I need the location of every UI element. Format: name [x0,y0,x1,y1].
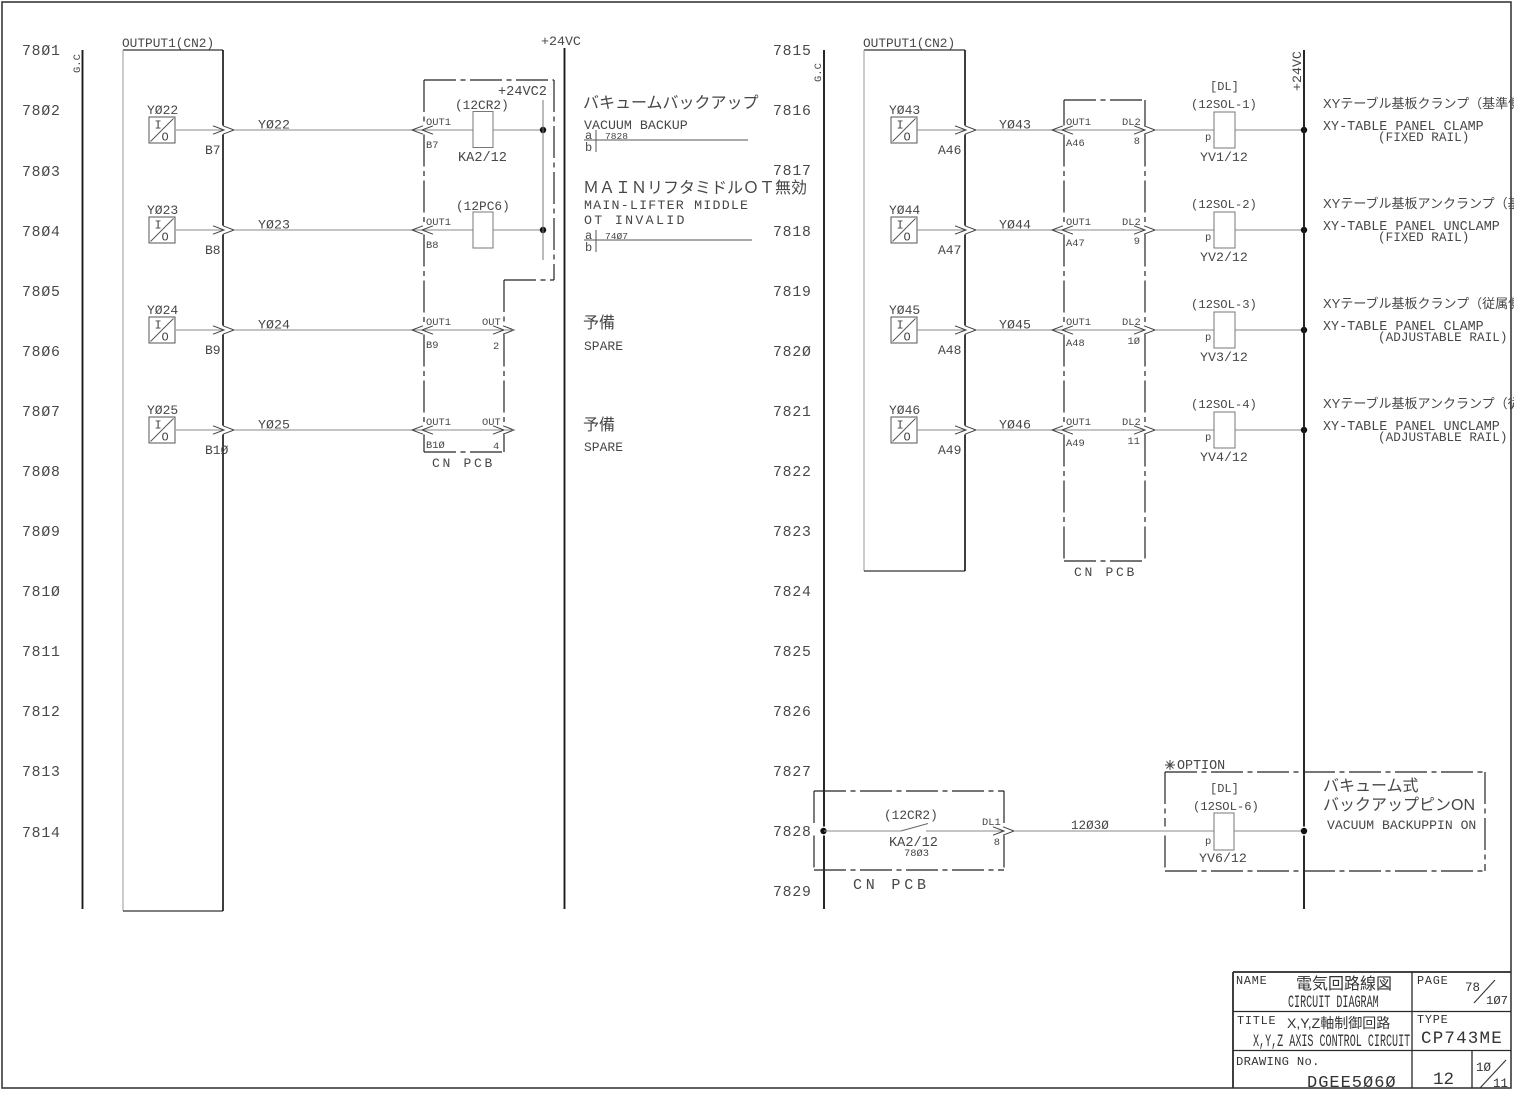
svg-text:p: p [1205,232,1211,244]
svg-text:OUT1: OUT1 [1066,217,1091,229]
wire net YØ25 to CN PCB [234,418,424,433]
svg-text:A47: A47 [1066,238,1085,250]
function annotation row y=230 [1323,196,1514,245]
svg-text:A46: A46 [1066,138,1085,150]
svg-text:CN PCB: CN PCB [853,877,930,894]
svg-text:YØ43: YØ43 [999,118,1031,133]
pin arrow A48 out of OUTPUT1(CN2) right [955,326,976,334]
svg-text:OUT: OUT [482,417,501,429]
wire YØ43 from module to connector edge [917,129,965,131]
svg-text:(ADJUSTABLE RAIL): (ADJUSTABLE RAIL) [1378,330,1507,345]
svg-text:+24VC2: +24VC2 [498,85,547,100]
junction node +24VC2 / KA2 coil [540,127,546,133]
svg-text:CN PCB: CN PCB [432,456,495,471]
svg-text:YV1/12: YV1/12 [1200,150,1248,165]
pin arrow OUT1/B8 into CN PCB [412,217,451,252]
svg-text:b: b [585,141,592,155]
I/O output module YØ22 [147,103,221,158]
I/O output module YØ23 [147,203,221,258]
svg-text:O: O [162,131,169,145]
junction node YV6 to +24VC rail [1301,828,1307,834]
svg-text:YV3/12: YV3/12 [1200,350,1248,365]
svg-text:O: O [904,331,911,345]
svg-text:X,Y,Z AXIS CONTROL CIRCUIT: X,Y,Z AXIS CONTROL CIRCUIT [1253,1032,1410,1052]
wire net 12030 [1014,819,1214,833]
svg-text:(12SOL-6): (12SOL-6) [1193,800,1259,814]
I/O output module YØ24 [147,303,221,358]
function annotation row y=130 [1323,96,1514,145]
svg-text:SPARE: SPARE [584,339,623,354]
svg-text:MAIN-LIFTER MIDDLE: MAIN-LIFTER MIDDLE [584,198,749,213]
svg-text:1Ø7: 1Ø7 [1486,994,1508,1008]
svg-text:7826: 7826 [773,705,812,721]
svg-text:YV2/12: YV2/12 [1200,250,1248,265]
svg-text:YØ24: YØ24 [258,318,290,333]
svg-text:b: b [585,241,592,255]
svg-text:YØ25: YØ25 [258,418,290,433]
svg-text:YØ24: YØ24 [147,303,178,318]
svg-text:12: 12 [1433,1070,1454,1090]
wire YØ44 from module to connector edge [917,229,965,231]
wire YØ22 from module to connector edge [176,129,223,131]
svg-text:p: p [1205,332,1211,344]
svg-text:DL1: DL1 [982,817,1001,829]
svg-text:7811: 7811 [22,645,61,661]
pin arrow OUT1/A49 into CN PCB right [1052,417,1091,450]
svg-text:(ADJUSTABLE RAIL): (ADJUSTABLE RAIL) [1378,430,1507,445]
wire through CN PCB right row YØ43 [1064,129,1145,131]
pin arrow A47 out of OUTPUT1(CN2) right [955,226,976,234]
svg-text:B9: B9 [205,343,221,358]
wire net YØ46 to CN PCB right [976,418,1064,433]
pin arrow OUT1/B1Ø into CN PCB [412,417,451,452]
svg-text:7828: 7828 [773,825,812,841]
svg-text:XYテーブル基板アンクランプ（基準側）: XYテーブル基板アンクランプ（基準側） [1323,196,1514,211]
CN PCB board outline left (dash-dot) [424,80,554,471]
svg-text:XYテーブル基板アンクランプ（従属側）: XYテーブル基板アンクランプ（従属側） [1323,396,1514,411]
right G.C bus rail [823,50,825,827]
svg-text:78: 78 [1465,981,1480,995]
wire net YØ45 to CN PCB right [976,318,1064,333]
svg-text:DRAWING No.: DRAWING No. [1236,1055,1320,1069]
annotation SPARE row 7807 [583,416,623,455]
svg-text:+24VC: +24VC [1290,51,1305,91]
+24VC2 supply stub [498,85,547,260]
CN PCB board outline bottom-left (dash-dot) [814,791,1004,894]
pin arrow DL2/9 out of CN PCB right [1122,217,1155,248]
wire YØ46 from module to connector edge [917,429,965,431]
svg-text:7824: 7824 [773,585,812,601]
junction node YV4/12 to +24VC rail [1301,427,1307,433]
svg-text:OUT1: OUT1 [426,217,451,229]
svg-text:7814: 7814 [22,826,61,842]
svg-text:78Ø6: 78Ø6 [22,345,61,361]
svg-text:A48: A48 [938,343,961,358]
+24VC bus rail right half [1303,50,1305,827]
svg-text:DL2: DL2 [1122,217,1141,229]
svg-text:TYPE: TYPE [1417,1013,1449,1027]
wire YØ24 from module to connector edge [176,329,223,331]
I/O output module YØ43 [889,103,961,158]
wire through CN PCB right row YØ45 [1064,329,1145,331]
svg-text:A49: A49 [1066,438,1085,450]
svg-text:XYテーブル基板クランプ（基準側）: XYテーブル基板クランプ（基準側） [1323,96,1514,111]
wire net YØ24 to CN PCB [234,318,424,333]
title block PAGE cell 78/107 [1417,974,1508,1008]
svg-text:OUT1: OUT1 [426,417,451,429]
svg-text:11: 11 [1493,1077,1508,1091]
wire net YØ23 to CN PCB [234,218,424,233]
svg-text:7821: 7821 [773,405,812,421]
pin arrow B9 out of OUTPUT1(CN2) [213,326,234,334]
pin arrow OUT1/A47 into CN PCB right [1052,217,1091,250]
svg-text:YØ44: YØ44 [999,218,1031,233]
solenoid valve (12SOL-1) YV1/12 [1155,80,1304,165]
svg-text:ＭＡＩＮリフタミドルＯＴ無効: ＭＡＩＮリフタミドルＯＴ無効 [583,179,807,197]
svg-text:YV4/12: YV4/12 [1200,450,1248,465]
wire through CN PCB right row YØ46 [1064,429,1145,431]
svg-text:YØ45: YØ45 [999,318,1031,333]
annotation SPARE row 7805 [583,314,623,354]
svg-text:+24VC: +24VC [541,34,581,49]
svg-text:782Ø: 782Ø [773,345,812,361]
svg-text:DL2: DL2 [1122,117,1141,129]
pin arrow OUT1/B9 into CN PCB [412,317,451,352]
svg-text:7812: 7812 [22,705,61,721]
svg-text:YØ23: YØ23 [258,218,290,233]
wire net YØ44 to CN PCB right [976,218,1064,233]
svg-text:7829: 7829 [773,885,812,901]
pin arrow OUT/2 out of CN PCB [482,317,514,353]
svg-text:CN PCB: CN PCB [1074,565,1137,580]
pin arrow DL2/1Ø out of CN PCB right [1122,317,1155,348]
svg-text:1Ø: 1Ø [1476,1061,1492,1075]
svg-text:OUTPUT1(CN2): OUTPUT1(CN2) [122,36,214,51]
left G.C bus rail [82,50,84,909]
svg-text:7817: 7817 [773,164,812,180]
function annotation row y=430 [1323,396,1514,445]
junction node YV1/12 to +24VC rail [1301,127,1307,133]
svg-text:VACUUM BACKUP: VACUUM BACKUP [584,118,688,133]
title block TITLE cell [1237,1014,1410,1052]
svg-text:7822: 7822 [773,465,812,481]
pin arrow B1Ø out of OUTPUT1(CN2) [213,426,234,434]
svg-text:[DL]: [DL] [1210,782,1239,796]
function annotation row y=330 [1323,296,1514,345]
svg-text:CIRCUIT DIAGRAM: CIRCUIT DIAGRAM [1288,993,1379,1013]
svg-text:バキューム式: バキューム式 [1323,777,1419,795]
svg-text:PAGE: PAGE [1417,974,1449,988]
svg-text:78Ø9: 78Ø9 [22,525,61,541]
svg-text:2: 2 [493,341,499,353]
svg-text:予備: 予備 [583,314,615,332]
wire spare through CN PCB row y=430 [424,429,504,431]
svg-text:78Ø3: 78Ø3 [904,848,929,860]
I/O output module YØ45 [889,303,961,358]
svg-text:OT INVALID: OT INVALID [584,213,687,228]
wire spare through CN PCB row y=330 [424,329,504,331]
svg-text:(12SOL-4): (12SOL-4) [1191,398,1257,412]
junction node YV2/12 to +24VC rail [1301,227,1307,233]
I/O output module YØ46 [889,403,961,458]
svg-text:9: 9 [1134,236,1140,248]
svg-text:7818: 7818 [773,225,812,241]
svg-text:O: O [162,231,169,245]
pin arrow A46 out of OUTPUT1(CN2) right [955,126,976,134]
svg-text:YØ46: YØ46 [889,403,920,418]
title block TYPE cell CP743ME [1417,1013,1503,1049]
svg-text:78Ø4: 78Ø4 [22,225,61,241]
pin arrow B8 out of OUTPUT1(CN2) [213,226,234,234]
svg-text:12Ø3Ø: 12Ø3Ø [1071,819,1109,833]
svg-text:8: 8 [994,837,1000,849]
svg-text:O: O [904,431,911,445]
+24VC bus rail left half [564,48,566,909]
pin arrow DL2/11 out of CN PCB right [1122,417,1155,448]
svg-text:p: p [1205,432,1211,444]
svg-text:X,Y,Z軸制御回路: X,Y,Z軸制御回路 [1287,1015,1390,1031]
relay contact (12CR2) KA2/12 on net 7828 [824,808,1004,860]
annotation VACUUM BACKUP for net 7802 [583,94,759,133]
svg-text:7813: 7813 [22,765,61,781]
svg-text:(12SOL-3): (12SOL-3) [1191,298,1257,312]
left line-number column 7801-7814 [22,44,61,842]
annotation VACUUM BACKUPPIN ON [1323,777,1476,833]
wire through CN PCB right row YØ44 [1064,229,1145,231]
svg-text:4: 4 [493,441,499,453]
svg-text:B7: B7 [426,140,438,152]
svg-text:O: O [162,331,169,345]
solenoid valve (12SOL-6) YV6/12 [1193,782,1304,866]
junction node YV3/12 to +24VC rail [1301,327,1307,333]
contact cross-reference a/b 7407 [584,229,752,255]
svg-text:YØ45: YØ45 [889,303,920,318]
svg-text:78Ø2: 78Ø2 [22,104,61,120]
pin arrow OUT1/A48 into CN PCB right [1052,317,1091,350]
svg-text:(12CR2): (12CR2) [884,808,938,823]
wire net YØ43 to CN PCB right [976,118,1064,133]
svg-text:78Ø1: 78Ø1 [22,44,61,60]
title block DRAWING No cell DGEE5060 [1236,1055,1397,1093]
svg-text:1Ø: 1Ø [1128,336,1140,348]
solenoid valve (12SOL-3) YV3/12 [1155,298,1304,365]
svg-text:SPARE: SPARE [584,440,623,455]
connector block OUTPUT1(CN2) left [122,36,223,911]
svg-text:DL2: DL2 [1122,317,1141,329]
svg-text:O: O [904,131,911,145]
svg-text:YØ22: YØ22 [147,103,178,118]
svg-text:YV6/12: YV6/12 [1199,851,1247,866]
wire YØ45 from module to connector edge [917,329,965,331]
svg-text:OUT1: OUT1 [1066,317,1091,329]
svg-text:YØ44: YØ44 [889,203,920,218]
annotation MAIN-LIFTER MIDDLE OT INVALID for net 7804 [583,179,807,228]
svg-text:YØ25: YØ25 [147,403,178,418]
svg-text:B8: B8 [426,240,438,252]
svg-text:p: p [1205,132,1211,144]
junction node +24VC2 / PC6 coil [540,227,546,233]
CN PCB board outline right (dash-dot) [1064,100,1145,580]
svg-text:7825: 7825 [773,645,812,661]
pin arrow OUT1/A46 into CN PCB right [1052,117,1091,150]
pin arrow OUT1/B7 into CN PCB [412,117,451,152]
svg-text:NAME: NAME [1236,974,1268,988]
svg-text:7816: 7816 [773,104,812,120]
svg-text:A48: A48 [1066,338,1085,350]
svg-text:YØ46: YØ46 [999,418,1031,433]
wire YØ23 from module to connector edge [176,229,223,231]
svg-text:7823: 7823 [773,525,812,541]
pin arrow OUT/4 out of CN PCB [482,417,514,453]
svg-text:B1Ø: B1Ø [426,440,445,452]
svg-text:A49: A49 [938,443,961,458]
svg-text:O: O [904,231,911,245]
svg-text:YØ23: YØ23 [147,203,178,218]
svg-text:A46: A46 [938,143,961,158]
svg-text:OUTPUT1(CN2): OUTPUT1(CN2) [863,36,955,51]
wire net YØ22 to CN PCB [234,118,424,133]
svg-text:78Ø8: 78Ø8 [22,465,61,481]
svg-text:8: 8 [1134,136,1140,148]
svg-text:YØ22: YØ22 [258,118,290,133]
contact cross-reference a/b 7828 for relay KA2 [584,129,748,155]
svg-text:予備: 予備 [583,416,615,434]
svg-text:YØ43: YØ43 [889,103,920,118]
svg-text:7827: 7827 [773,765,812,781]
svg-text:78Ø7: 78Ø7 [22,405,61,421]
svg-text:B7: B7 [205,143,221,158]
right line-number column 7815-7829 [773,44,812,901]
svg-text:OUT1: OUT1 [426,117,451,129]
svg-text:XYテーブル基板クランプ（従属側）: XYテーブル基板クランプ（従属側） [1323,296,1514,311]
svg-text:OUT1: OUT1 [1066,417,1091,429]
OPTION block (dash-dot) with solenoid 12SOL-6 [1165,759,1485,871]
wire YØ25 from module to connector edge [176,429,223,431]
svg-text:781Ø: 781Ø [22,585,61,601]
solenoid valve (12SOL-2) YV2/12 [1155,198,1304,265]
pin arrow DL1/8 out of CN PCB bottom [982,817,1014,849]
I/O output module YØ44 [889,203,961,258]
connector block OUTPUT1(CN2) left right edge with pin gaps [222,50,224,126]
svg-text:OUT1: OUT1 [1066,117,1091,129]
svg-text:バックアップピンON: バックアップピンON [1323,796,1475,814]
svg-text:A47: A47 [938,243,961,258]
pin arrow DL2/8 out of CN PCB right [1122,117,1155,148]
title block 10/11 cell [1476,1060,1508,1091]
svg-text:電気回路線図: 電気回路線図 [1296,975,1392,993]
svg-text:11: 11 [1128,436,1140,448]
svg-text:DL2: DL2 [1122,417,1141,429]
svg-text:OUT1: OUT1 [426,317,451,329]
svg-text:CP743ME: CP743ME [1421,1029,1503,1049]
svg-text:OUT: OUT [482,317,501,329]
svg-text:[DL]: [DL] [1210,80,1239,94]
connector block OUTPUT1(CN2) right [863,36,965,571]
I/O output module YØ25 [147,403,229,458]
svg-text:(12CR2): (12CR2) [455,98,509,113]
junction node 7828 on G.C rail [820,828,826,834]
svg-text:O: O [162,431,169,445]
svg-text:78Ø3: 78Ø3 [22,165,61,181]
svg-text:B9: B9 [426,340,438,352]
svg-text:78Ø5: 78Ø5 [22,285,61,301]
solenoid valve (12SOL-4) YV4/12 [1155,398,1304,465]
title block frame [1233,972,1511,1088]
svg-text:(12SOL-2): (12SOL-2) [1191,198,1257,212]
svg-text:KA2/12: KA2/12 [458,151,507,166]
title block NAME cell [1236,974,1392,1013]
svg-text:バキュームバックアップ: バキュームバックアップ [583,94,759,112]
relay coil (12PC6) [424,199,543,248]
svg-text:B8: B8 [205,243,221,258]
svg-text:TITLE: TITLE [1237,1014,1276,1028]
pin arrow A49 out of OUTPUT1(CN2) right [955,426,976,434]
svg-text:B1Ø: B1Ø [205,443,229,458]
svg-text:(12SOL-1): (12SOL-1) [1191,98,1257,112]
svg-text:DGEE5Ø6Ø: DGEE5Ø6Ø [1307,1074,1397,1093]
svg-text:VACUUM BACKUPPIN ON: VACUUM BACKUPPIN ON [1327,818,1476,833]
pin arrow B7 out of OUTPUT1(CN2) [213,126,234,134]
svg-text:(FIXED RAIL): (FIXED RAIL) [1378,130,1469,145]
relay coil (12CR2) KA2/12 [424,98,543,166]
svg-text:7819: 7819 [773,285,812,301]
svg-text:(FIXED RAIL): (FIXED RAIL) [1378,230,1469,245]
svg-text:7815: 7815 [773,44,812,60]
connector block OUTPUT1(CN2) right edge with pin gaps [964,50,966,126]
svg-text:p: p [1205,836,1211,848]
